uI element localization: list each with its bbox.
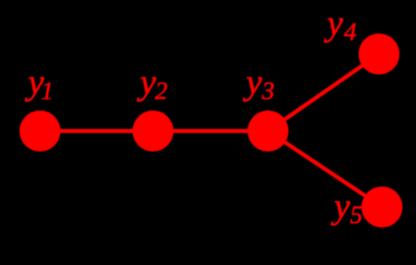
edge y3-y4 [268,54,379,131]
node y3 [248,111,289,152]
node y1 [20,111,61,152]
edge y2-y3 [153,129,268,133]
node y5 [362,187,403,228]
edge y1-y2 [40,129,153,133]
node y4 [359,34,400,75]
node y2 [133,111,174,152]
edge y3-y5 [268,131,382,207]
